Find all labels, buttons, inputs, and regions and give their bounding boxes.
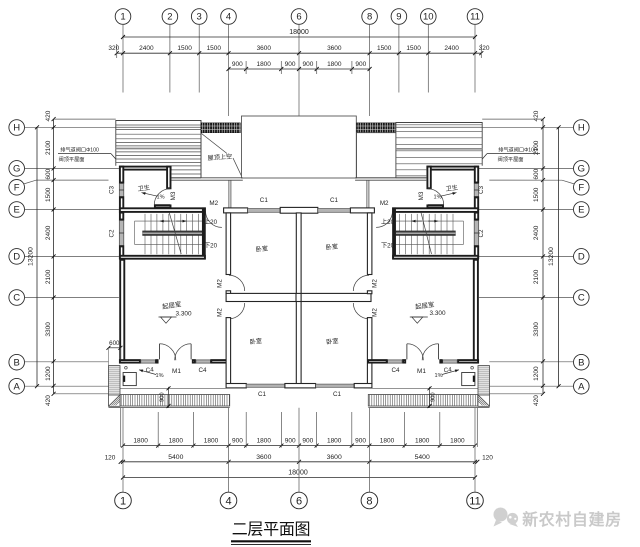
- window C3 right: [474, 184, 479, 197]
- stair direction arrows right: [428, 220, 438, 222]
- svg-text:900: 900: [160, 392, 166, 402]
- grid bubble F left: [9, 180, 25, 196]
- stair south wall right (grid D): [393, 256, 478, 259]
- grid bubble A left: [9, 378, 25, 394]
- living room level mark right: [410, 316, 428, 318]
- svg-text:3300: 3300: [45, 322, 52, 337]
- door M2 bedroom-S left arc: [229, 303, 245, 319]
- bedroom divider wall right (grid C): [301, 293, 371, 301]
- grid bubble C left: [9, 290, 25, 306]
- bottom extension line x=299.0: [298, 408, 300, 492]
- svg-text:1%: 1%: [433, 194, 441, 200]
- bathroom west wall right: [427, 167, 430, 189]
- title underline thin: [231, 544, 311, 546]
- svg-text:卫生: 卫生: [137, 183, 150, 193]
- svg-text:上20: 上20: [381, 218, 395, 226]
- grid bubble A right: [574, 378, 590, 394]
- svg-text:1800: 1800: [133, 438, 148, 445]
- south wall B left segment 1: [120, 360, 140, 363]
- svg-text:900: 900: [355, 61, 366, 68]
- bottom extension line x=369.4: [368, 408, 370, 492]
- grid bubble 6: [291, 9, 307, 25]
- grid line E left: [25, 209, 119, 211]
- svg-text:排气道阀口Φ100: 排气道阀口Φ100: [60, 145, 99, 153]
- svg-text:9: 9: [396, 12, 401, 23]
- roof hatch lines right: [396, 124, 482, 126]
- svg-text:1800: 1800: [257, 438, 272, 445]
- balcony dim 900 right: [429, 387, 431, 408]
- south wall B right segment 4: [368, 360, 387, 363]
- svg-text:1800: 1800: [204, 438, 219, 445]
- grid bubble B right: [574, 354, 590, 370]
- window C1 south-right: [316, 384, 355, 387]
- extension line 420 bottom right: [489, 393, 543, 395]
- svg-text:18000: 18000: [289, 29, 309, 36]
- south wall B left pier 2: [156, 360, 157, 363]
- balcony slab edge line right: [368, 387, 478, 389]
- terrace edge double line right: [355, 177, 426, 179]
- svg-text:M2: M2: [217, 279, 224, 288]
- dim 600 left: [109, 347, 121, 349]
- svg-text:G: G: [578, 164, 585, 175]
- svg-text:C3: C3: [478, 185, 485, 194]
- bathroom slope arrow left: [142, 193, 158, 197]
- svg-text:A: A: [578, 381, 585, 392]
- side planter strip right: [478, 366, 490, 395]
- grid line 6 extension: [298, 24, 300, 116]
- svg-text:二层平面图: 二层平面图: [232, 522, 311, 539]
- grid line D left: [25, 255, 119, 257]
- grid line H right: [482, 126, 573, 128]
- svg-text:M2: M2: [372, 279, 379, 288]
- svg-text:3.300: 3.300: [176, 310, 192, 317]
- stair west wall upper left: [120, 213, 123, 220]
- svg-text:下20: 下20: [204, 242, 218, 249]
- roof hatch lines right lower part: [396, 169, 426, 171]
- parapet planter band left (dark): [201, 123, 240, 133]
- svg-text:900: 900: [232, 438, 243, 445]
- svg-text:420: 420: [533, 395, 540, 406]
- grid bubble 2: [162, 9, 178, 25]
- svg-text:C1: C1: [258, 391, 267, 398]
- bathroom south wall right: [427, 205, 443, 207]
- svg-text:C4: C4: [198, 367, 207, 374]
- svg-text:阀顶平屋面: 阀顶平屋面: [498, 155, 524, 163]
- side planter corner left (diag hatch): [109, 395, 121, 406]
- door M2 bedroom-N right arc: [353, 275, 369, 291]
- svg-text:阀顶平屋面: 阀顶平屋面: [59, 155, 85, 163]
- svg-text:3600: 3600: [327, 45, 342, 52]
- grid bubble G right: [574, 161, 590, 177]
- svg-text:排气道阀口Φ100: 排气道阀口Φ100: [498, 145, 537, 153]
- svg-text:10: 10: [423, 12, 434, 23]
- stair east wall lower right: [475, 246, 478, 258]
- window C1 north-right: [318, 209, 351, 213]
- bottom extension line x=158.2: [157, 412, 159, 448]
- grid bubble F right: [574, 180, 590, 196]
- svg-text:1800: 1800: [380, 438, 395, 445]
- bathroom west wall lower left: [120, 197, 123, 210]
- dim line 13200 left: [36, 127, 38, 386]
- balcony slope arrow left: [139, 370, 156, 375]
- bottom extension line x=316.6: [316, 412, 318, 448]
- dim chain line bottom first: [123, 445, 475, 447]
- grid line G right: [479, 167, 574, 169]
- extension line 420 bottom left: [54, 393, 109, 395]
- stair west wall right: [393, 208, 395, 258]
- svg-text:M1: M1: [417, 368, 426, 375]
- roof slab left (hatched): [116, 121, 201, 178]
- south wall B right pier 3: [403, 360, 405, 363]
- svg-text:900: 900: [302, 61, 313, 68]
- window C4 right-2: [388, 360, 403, 363]
- svg-text:M2: M2: [380, 200, 389, 207]
- svg-text:1800: 1800: [450, 438, 465, 445]
- door M2 stair-terrace right arc: [376, 211, 392, 227]
- svg-text:C2: C2: [109, 229, 116, 238]
- bottom extension line x=351.8: [351, 412, 353, 448]
- roof-void break line left upper: [202, 134, 228, 154]
- grid line 9 extension: [398, 24, 400, 92]
- stair north wall left: [120, 208, 205, 212]
- svg-text:A: A: [14, 381, 21, 392]
- svg-text:M2: M2: [217, 308, 224, 317]
- grid line F right: [489, 179, 562, 181]
- svg-text:F: F: [14, 182, 20, 193]
- extension line roof-top left: [54, 118, 116, 120]
- svg-text:3600: 3600: [256, 454, 271, 461]
- svg-text:B: B: [578, 357, 584, 368]
- svg-text:2: 2: [167, 12, 172, 23]
- stair flight edges right: [396, 220, 464, 222]
- window C4 right-1: [443, 360, 458, 363]
- extension line 320 right: [480, 44, 482, 58]
- svg-text:4: 4: [226, 12, 231, 23]
- svg-text:H: H: [13, 123, 20, 134]
- bottom extension line x=281.4: [280, 412, 282, 448]
- svg-text:600: 600: [109, 340, 120, 347]
- window C2 right: [474, 221, 479, 246]
- stair north wall right: [393, 208, 478, 212]
- bottom extension line x=246.2: [245, 412, 247, 448]
- bedroom north wall center pier left: [280, 207, 318, 213]
- svg-text:M2: M2: [209, 200, 218, 207]
- svg-text:5400: 5400: [168, 454, 183, 461]
- roof-void break line left lower: [233, 158, 242, 176]
- svg-text:上20: 上20: [204, 218, 218, 226]
- grid line 3 extension: [198, 24, 200, 92]
- bottom extension line x=193.4: [192, 412, 194, 448]
- grid line 8 extension: [369, 24, 371, 116]
- stair handrail left: [143, 231, 202, 236]
- svg-text:13200: 13200: [548, 247, 555, 266]
- bathroom slope arrow right: [441, 193, 457, 197]
- svg-text:C1: C1: [333, 391, 342, 398]
- floor drain circle right: [471, 367, 474, 370]
- svg-text:900: 900: [285, 61, 296, 68]
- bedroom north wall left segment (grid E): [224, 208, 248, 213]
- divider wall stub left: [226, 291, 231, 294]
- party wall upper (grid 6): [296, 213, 301, 294]
- void area below right band: [357, 133, 396, 178]
- grid line 1 extension: [122, 24, 124, 92]
- svg-text:1500: 1500: [177, 45, 192, 52]
- svg-text:2400: 2400: [533, 225, 540, 240]
- living room west wall left: [120, 260, 124, 363]
- svg-text:1800: 1800: [169, 438, 184, 445]
- svg-text:1800: 1800: [415, 438, 430, 445]
- svg-text:6: 6: [296, 496, 302, 508]
- door M3 right swing arc: [428, 189, 444, 205]
- svg-text:C2: C2: [478, 229, 485, 238]
- bathroom east wall left: [167, 167, 170, 189]
- stair south wall left (grid D): [120, 256, 205, 259]
- svg-text:900: 900: [431, 392, 437, 402]
- stair break line right: [421, 213, 432, 255]
- dim chain line right: [542, 119, 544, 394]
- svg-text:3.300: 3.300: [430, 310, 446, 317]
- svg-text:11: 11: [469, 496, 480, 508]
- door M3 left leaf: [154, 204, 170, 206]
- parapet planter band right (dark): [357, 123, 396, 133]
- roof hatch lines left: [116, 124, 201, 126]
- svg-text:2100: 2100: [533, 269, 540, 284]
- window C1 north-left: [248, 209, 281, 213]
- window C2 left: [119, 221, 124, 246]
- door M1 left arcs: [159, 344, 175, 360]
- bottom extension line x=404.6: [404, 412, 406, 448]
- svg-text:900: 900: [285, 438, 296, 445]
- svg-text:1200: 1200: [533, 366, 540, 381]
- svg-text:1%: 1%: [155, 373, 163, 379]
- divider wall stub right: [367, 291, 372, 294]
- bedroom south wall center pier (grid A): [285, 384, 316, 388]
- grid line H left: [25, 126, 116, 128]
- svg-text:M3: M3: [170, 191, 177, 200]
- grid bubble 1: [115, 9, 131, 25]
- wash basin left: [123, 373, 136, 386]
- bottom extension line x=439.8: [439, 412, 441, 448]
- svg-text:C1: C1: [330, 197, 339, 204]
- svg-text:C: C: [578, 293, 585, 304]
- grid line 11 extension: [474, 24, 476, 92]
- svg-text:6: 6: [296, 12, 301, 23]
- side planter corner right (diag hatch): [478, 395, 490, 406]
- bottom extension line x=477.3: [476, 408, 478, 447]
- svg-text:13200: 13200: [27, 247, 34, 266]
- stair flight edges left: [135, 220, 203, 222]
- svg-text:1500: 1500: [377, 45, 392, 52]
- svg-text:M2: M2: [372, 308, 379, 317]
- stair treads left: [144, 214, 146, 254]
- bathroom west wall upper left: [120, 167, 123, 183]
- grid line F left: [24, 180, 37, 184]
- svg-text:E: E: [578, 205, 584, 216]
- grid bubble H right: [574, 120, 590, 136]
- door M3 left swing arc: [154, 189, 170, 205]
- svg-text:3600: 3600: [257, 45, 272, 52]
- svg-text:8: 8: [366, 496, 372, 508]
- grid bubble 8: [362, 9, 378, 25]
- door M2 bedroom-S right arc: [353, 303, 369, 319]
- dim chain line top second (900/1800/900): [229, 68, 370, 70]
- svg-text:320: 320: [479, 45, 490, 52]
- dim chain line bottom second: [121, 461, 478, 463]
- svg-text:420: 420: [45, 395, 52, 406]
- bedroom south wall left segment (grid A): [226, 384, 246, 388]
- svg-text:新农村自建房: 新农村自建房: [522, 510, 622, 529]
- watermark icon chat-bubbles: [494, 508, 519, 528]
- grid line 10 extension: [427, 24, 429, 92]
- vent note leader left: [58, 153, 111, 155]
- bottom extension line x=120.7: [120, 408, 122, 447]
- extension line 320 left: [116, 44, 118, 58]
- grid bubble E right: [574, 202, 590, 218]
- svg-text:B: B: [14, 357, 20, 368]
- svg-text:900: 900: [232, 61, 243, 68]
- svg-text:1800: 1800: [256, 61, 271, 68]
- floor drain circle left: [125, 367, 128, 370]
- door M1 right leaves: [438, 344, 440, 360]
- svg-text:1500: 1500: [207, 45, 222, 52]
- svg-text:120: 120: [482, 454, 493, 461]
- door M3 right leaf: [428, 204, 444, 206]
- svg-text:M3: M3: [418, 191, 425, 200]
- stair break line left: [169, 213, 181, 255]
- grid line H across left roof: [116, 126, 201, 128]
- door M2 bedroom-N left arc: [229, 275, 245, 291]
- svg-text:420: 420: [533, 110, 540, 121]
- roof hatch lines left lower part: [172, 165, 202, 167]
- stair direction arrows left: [160, 220, 170, 222]
- svg-text:C: C: [13, 293, 20, 304]
- bedroom west wall lower right: [367, 318, 372, 384]
- svg-text:3: 3: [197, 12, 202, 23]
- grid line G left: [25, 167, 119, 169]
- window C4 left-1: [141, 360, 156, 363]
- svg-text:18000: 18000: [288, 469, 308, 476]
- south wall B left segment 4: [211, 360, 230, 363]
- svg-text:4: 4: [225, 496, 231, 508]
- dim line 13200 right: [558, 127, 560, 386]
- bathroom north wall right (grid G): [427, 167, 478, 170]
- svg-text:900: 900: [355, 438, 366, 445]
- grid bubble 9: [391, 9, 407, 25]
- dim line 18000 bottom: [123, 477, 475, 479]
- svg-text:卫生: 卫生: [445, 183, 458, 193]
- svg-text:G: G: [13, 164, 20, 175]
- bedroom north wall right segment (grid E): [350, 208, 374, 213]
- title underline thick: [231, 540, 311, 542]
- svg-text:1: 1: [120, 12, 125, 23]
- south wall B left pier 3: [193, 360, 195, 363]
- svg-text:120: 120: [105, 455, 116, 462]
- svg-text:420: 420: [45, 110, 52, 121]
- window C4 left-2: [196, 360, 211, 363]
- living room level mark left: [159, 316, 177, 318]
- bedroom south wall right segment (grid A): [354, 384, 372, 388]
- svg-text:900: 900: [302, 438, 313, 445]
- svg-text:D: D: [578, 252, 585, 263]
- svg-text:D: D: [13, 252, 20, 263]
- grid bubble G left: [9, 161, 25, 177]
- svg-text:320: 320: [108, 45, 119, 52]
- svg-text:卧室: 卧室: [249, 337, 262, 346]
- dim chain line left: [53, 119, 55, 394]
- grid line B right: [489, 361, 573, 363]
- svg-text:2400: 2400: [139, 45, 154, 52]
- balcony apron bottom line left: [109, 407, 230, 409]
- bottom extension line x=123.0: [122, 408, 124, 492]
- stair handrail right: [396, 231, 455, 236]
- grid bubble C right: [574, 290, 590, 306]
- balcony apron bottom line right: [368, 407, 489, 409]
- svg-text:1800: 1800: [327, 438, 342, 445]
- svg-text:1500: 1500: [406, 45, 421, 52]
- balcony apron hatch left: [120, 395, 230, 407]
- svg-text:1%: 1%: [434, 373, 442, 379]
- svg-text:600: 600: [533, 168, 540, 179]
- grid bubble 8 bottom: [361, 492, 378, 509]
- svg-text:11: 11: [470, 12, 480, 23]
- terrace parapet line left: [228, 180, 230, 207]
- balcony dim 900 left: [168, 387, 170, 408]
- grid bubble 11 bottom: [467, 492, 484, 509]
- balcony slope arrow right: [442, 370, 459, 375]
- window C3 left: [119, 184, 124, 197]
- grid line C left: [25, 297, 119, 299]
- grid line C right: [479, 297, 574, 299]
- svg-text:2400: 2400: [444, 45, 459, 52]
- grid bubble 4 bottom: [220, 492, 237, 509]
- grid line 2 extension: [169, 24, 171, 92]
- grid bubble 4: [221, 9, 237, 25]
- bathroom south wall left: [155, 205, 171, 207]
- grid line E right: [479, 209, 574, 211]
- svg-text:2100: 2100: [45, 140, 52, 155]
- roof thick course line right: [396, 148, 482, 150]
- svg-text:1800: 1800: [327, 61, 342, 68]
- door M1 right arcs: [422, 344, 438, 360]
- grid line H across right roof: [396, 126, 482, 128]
- window C1 south-left: [246, 384, 285, 387]
- grid bubble 3: [191, 9, 207, 25]
- roof thick course line left: [116, 148, 201, 150]
- grid line 4 extension: [228, 24, 230, 116]
- grid bubble 6 bottom: [291, 492, 308, 509]
- stair treads right: [452, 214, 454, 254]
- svg-text:E: E: [14, 205, 20, 216]
- svg-text:3300: 3300: [533, 322, 540, 337]
- svg-text:3600: 3600: [327, 454, 342, 461]
- balcony slab edge line left: [120, 387, 230, 389]
- svg-text:M1: M1: [172, 368, 181, 375]
- svg-text:1500: 1500: [533, 187, 540, 202]
- bedroom west wall lower left: [226, 318, 231, 384]
- vent note leader right: [487, 153, 540, 155]
- side planter strip left: [109, 366, 121, 395]
- svg-text:C3: C3: [109, 185, 116, 194]
- south wall B right segment 1: [458, 360, 478, 363]
- bathroom east wall upper right: [475, 167, 478, 183]
- svg-text:2100: 2100: [45, 269, 52, 284]
- bathroom east wall lower right: [475, 197, 478, 210]
- grid line B left: [25, 361, 109, 363]
- stair east wall left: [203, 208, 205, 258]
- svg-text:卧室: 卧室: [325, 242, 338, 251]
- bedroom divider wall left (grid C): [226, 293, 296, 301]
- party wall lower (grid 6): [296, 302, 301, 384]
